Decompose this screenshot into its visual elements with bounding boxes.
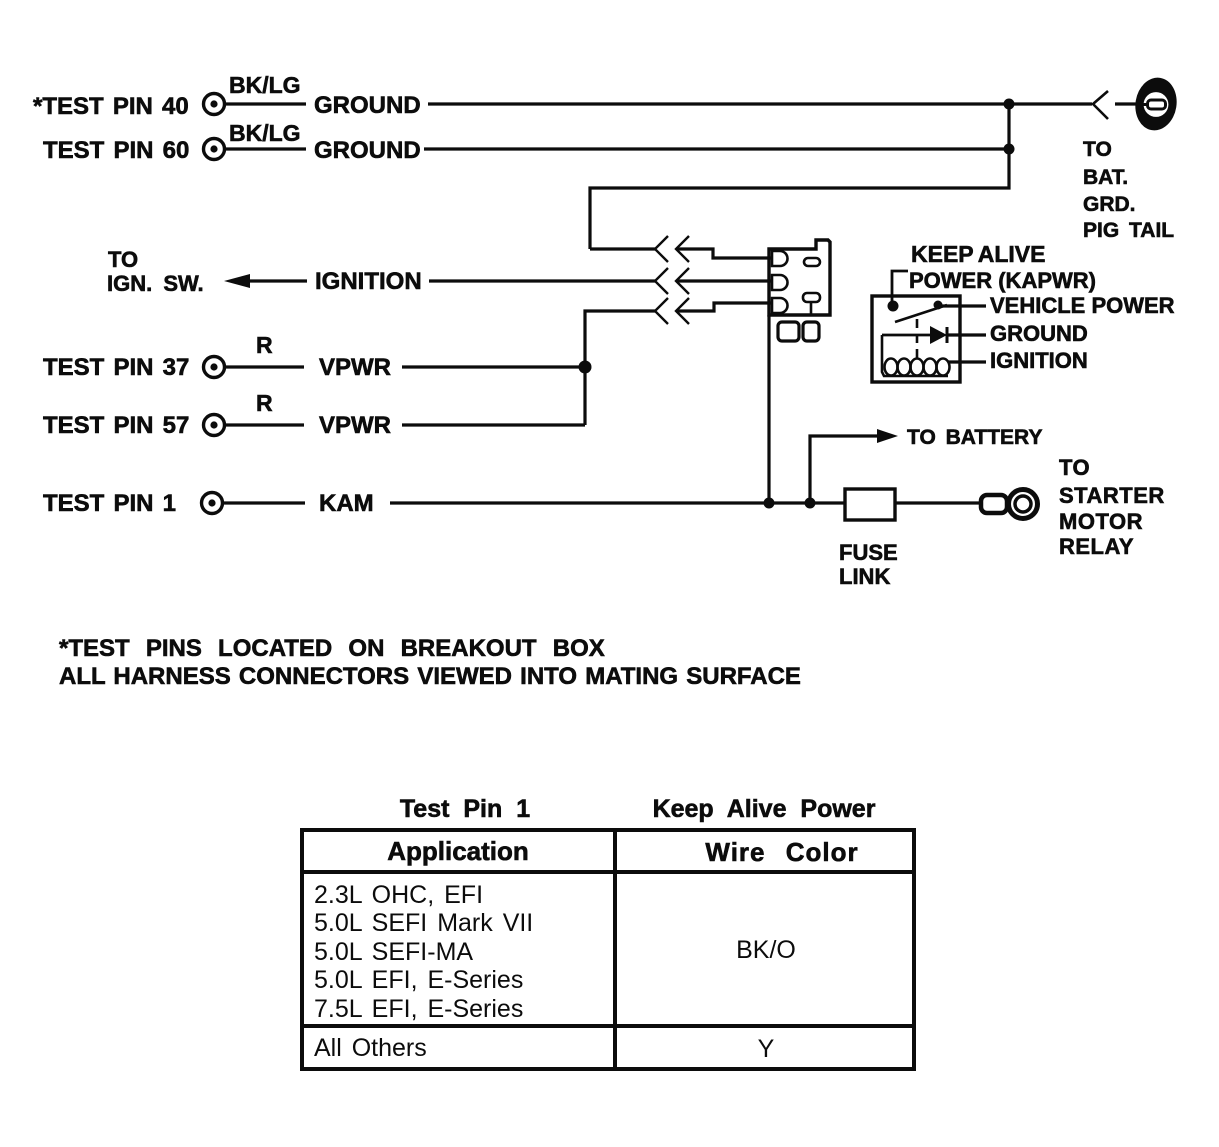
test pin 57 connector	[204, 415, 225, 436]
svg-text:GRD.: GRD.	[1083, 193, 1136, 216]
connector half (female) at pigtail	[1093, 91, 1108, 119]
wire pin57 to VPWR	[226, 423, 304, 426]
wire ignition (relay)	[948, 360, 986, 363]
svg-text:LINK: LINK	[839, 564, 890, 589]
relay contact dot 2	[934, 301, 943, 310]
wire pin60 to GROUND label	[226, 147, 306, 150]
wire ground bus vertical	[590, 104, 1009, 249]
svg-text:Test Pin 1: Test Pin 1	[400, 795, 530, 823]
svg-text:TEST PIN 60: TEST PIN 60	[43, 137, 189, 164]
wire KAM to fuse link	[390, 501, 845, 504]
svg-text:5.0L EFI, E-Series: 5.0L EFI, E-Series	[314, 966, 523, 994]
svg-text:RELAY: RELAY	[1059, 534, 1134, 559]
wire chevron2 to connector pin2	[676, 279, 772, 282]
svg-text:5.0L SEFI Mark VII: 5.0L SEFI Mark VII	[314, 909, 533, 937]
svg-text:BK/LG: BK/LG	[229, 120, 301, 146]
svg-text:VPWR: VPWR	[319, 354, 391, 381]
connector lock tab left	[778, 322, 799, 341]
svg-text:*TEST PINS LOCATED ON BREAKOUT: *TEST PINS LOCATED ON BREAKOUT BOX	[59, 635, 605, 662]
connector slot stem	[810, 302, 813, 315]
wire vehicle power	[942, 304, 986, 307]
relay armature dashed link	[916, 319, 919, 358]
wire pin40 to GROUND label	[226, 102, 306, 105]
connector lock tab right	[803, 322, 819, 341]
junction E (kam/battery)	[805, 498, 816, 509]
connector keyway slot bottom	[803, 293, 820, 302]
svg-text:BK/LG: BK/LG	[229, 72, 301, 98]
svg-text:Application: Application	[387, 836, 529, 866]
svg-text:IGNITION: IGNITION	[315, 268, 422, 295]
svg-text:STARTER: STARTER	[1059, 483, 1165, 508]
connector keyway slot top	[804, 258, 820, 266]
junction C (vpwr)	[579, 361, 592, 374]
connector pin 2	[772, 275, 788, 290]
svg-text:5.0L SEFI-MA: 5.0L SEFI-MA	[314, 938, 473, 966]
wire chevron1 to connector pin1	[676, 249, 772, 258]
svg-text:Y: Y	[758, 1035, 775, 1063]
svg-text:FUSE: FUSE	[839, 540, 898, 565]
svg-text:IGNITION: IGNITION	[990, 348, 1088, 373]
svg-text:GROUND: GROUND	[314, 137, 421, 164]
inline connector chevrons wire1	[655, 236, 689, 262]
test pin 40 connector	[204, 94, 225, 115]
svg-text:2.3L OHC, EFI: 2.3L OHC, EFI	[314, 881, 483, 909]
junction D (kam/connector)	[764, 498, 775, 509]
wire GROUND2 to junction	[424, 147, 1009, 150]
wire VPWR1 to junction	[402, 365, 585, 368]
svg-text:BK/O: BK/O	[736, 936, 796, 964]
svg-text:TEST PIN 37: TEST PIN 37	[43, 354, 189, 381]
svg-text:KEEP ALIVE: KEEP ALIVE	[911, 241, 1045, 267]
inline connector chevrons wire3	[655, 298, 689, 324]
wire GROUND1 to junction	[428, 102, 1009, 105]
relay contact dot 1	[888, 301, 899, 312]
table row separator	[302, 1024, 914, 1028]
svg-text:*TEST PIN 40: *TEST PIN 40	[33, 93, 189, 120]
wire IGNITION to connector	[429, 279, 656, 282]
svg-text:VPWR: VPWR	[319, 412, 391, 439]
wire battery branch	[810, 436, 877, 503]
wire pin37 to VPWR	[226, 365, 304, 368]
svg-text:TO: TO	[1083, 138, 1112, 161]
svg-text:All Others: All Others	[314, 1034, 427, 1062]
arrow to ignition switch	[224, 274, 250, 288]
wire fuse to ring terminal	[895, 501, 982, 504]
wire riser to chevron1	[590, 247, 656, 250]
connector block C1 outline	[769, 240, 830, 315]
wire connector drop to KAM	[767, 315, 770, 503]
svg-text:Wire Color: Wire Color	[705, 837, 858, 867]
ring terminal (bat. grd. pigtail)	[1132, 75, 1181, 134]
test pin 37 connector	[204, 357, 225, 378]
svg-text:Keep Alive Power: Keep Alive Power	[653, 795, 876, 823]
svg-text:MOTOR: MOTOR	[1059, 509, 1143, 534]
inline connector chevrons wire2	[655, 268, 689, 294]
svg-text:R: R	[256, 390, 273, 416]
diode D1	[882, 334, 930, 337]
arrow to battery	[877, 429, 898, 443]
wire connector to ring terminal	[1115, 102, 1136, 105]
relay coil L1	[885, 359, 950, 376]
svg-text:IGN. SW.: IGN. SW.	[107, 271, 204, 296]
table header separator	[302, 870, 914, 874]
wire ground (relay)	[947, 333, 986, 336]
kapwr pointer bracket	[892, 271, 908, 306]
svg-text:TO BATTERY: TO BATTERY	[907, 426, 1042, 449]
svg-text:PIG TAIL: PIG TAIL	[1083, 219, 1174, 242]
svg-text:KAM: KAM	[319, 490, 374, 517]
relay switch arm	[895, 305, 947, 322]
wire chevron3 to connector pin3	[676, 303, 772, 311]
svg-text:POWER (KAPWR): POWER (KAPWR)	[909, 268, 1096, 293]
svg-text:GROUND: GROUND	[314, 92, 421, 119]
svg-text:TO: TO	[1059, 455, 1090, 480]
svg-text:7.5L EFI, E-Series: 7.5L EFI, E-Series	[314, 995, 523, 1023]
svg-text:TEST PIN 57: TEST PIN 57	[43, 412, 189, 439]
wire VPWR2 to riser	[402, 423, 585, 426]
connector pin 3	[772, 298, 788, 313]
svg-text:VEHICLE POWER: VEHICLE POWER	[990, 293, 1175, 318]
junction B (ground line 2)	[1004, 144, 1015, 155]
svg-text:ALL HARNESS CONNECTORS VIEWED: ALL HARNESS CONNECTORS VIEWED INTO MATIN…	[59, 663, 801, 690]
svg-text:TEST PIN 1: TEST PIN 1	[43, 490, 176, 517]
connector pin 1	[772, 251, 788, 266]
ring terminal (starter relay)	[981, 495, 1007, 513]
svg-text:GROUND: GROUND	[990, 321, 1088, 346]
test pin 1 connector	[202, 493, 223, 514]
wire pin1 to KAM	[224, 501, 305, 504]
svg-text:TO: TO	[108, 247, 138, 272]
table column divider	[613, 830, 617, 1069]
wire vpwr riser to chevron3	[585, 311, 656, 425]
junction A (ground line 1)	[1004, 99, 1015, 110]
fuse link F1	[845, 489, 895, 520]
relay K1 box	[872, 296, 960, 382]
wire to pigtail connector	[1009, 102, 1092, 105]
svg-text:R: R	[256, 332, 273, 358]
relay coil leg	[882, 335, 948, 376]
svg-text:BAT.: BAT.	[1083, 166, 1128, 189]
test pin 60 connector	[204, 139, 225, 160]
table outer border	[302, 830, 914, 1069]
